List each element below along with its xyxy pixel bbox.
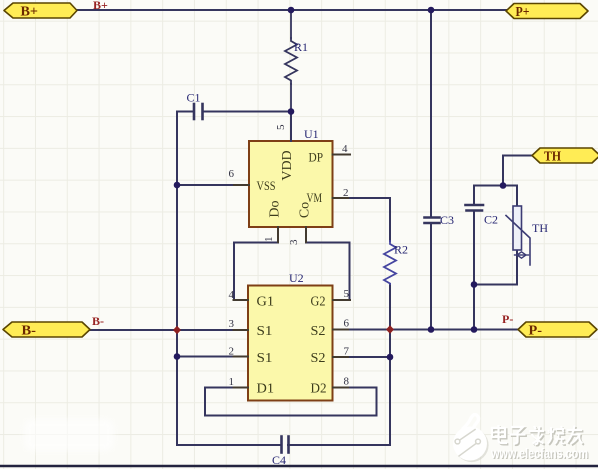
wire Co pin to G2 — [306, 227, 350, 300]
wire C2 bottom to P- net — [473, 212, 475, 330]
pin U2-6 — [333, 329, 348, 331]
resistor R1 — [285, 10, 297, 112]
wire TH port lead — [503, 156, 532, 186]
pin U1-4 — [333, 154, 351, 156]
pin U2-3 — [234, 329, 249, 331]
watermark text shadow — [493, 426, 584, 445]
pin U1-6 — [234, 184, 249, 186]
watermark smudge bottom-left — [24, 419, 114, 451]
node junction red R2/S2 — [386, 325, 394, 333]
watermark logo circle — [453, 415, 489, 463]
pin U2-4 — [234, 299, 249, 301]
wire VSS pin6 net — [177, 184, 249, 186]
node junction C2/TH bottom — [471, 281, 478, 288]
node junction C3 top — [428, 7, 435, 14]
wire C3 bottom lead — [430, 224, 432, 330]
node junction VSS net — [174, 182, 181, 189]
wire left vertical bus x=177 — [176, 112, 178, 446]
wire VM pin2 net to R2 top — [333, 198, 391, 241]
wire C4 left lead — [177, 444, 281, 446]
wire B- to S1 pin3 — [90, 329, 248, 331]
svg-text:www.elecfans.com: www.elecfans.com — [490, 446, 588, 461]
capacitor C3 — [425, 218, 440, 224]
watermark text — [492, 425, 583, 444]
wire TH thermistor bottom — [474, 250, 517, 285]
wire C3 top lead — [430, 10, 432, 216]
pin U1-3 — [305, 227, 307, 242]
pin U2-2 — [234, 356, 249, 358]
node junction S1 pin2 — [174, 353, 181, 360]
wire S2 pin7 to R2 net — [333, 356, 391, 358]
wire S1 pin2 — [177, 356, 248, 358]
wire C2 top stub — [473, 186, 475, 205]
port B- — [3, 322, 90, 339]
op-amp U2 — [248, 286, 333, 401]
pin U2-1 — [234, 387, 249, 389]
pin U1-5 — [290, 112, 292, 141]
pin U1-2 — [333, 197, 349, 199]
wire R2 bottom vertical to C4 — [288, 284, 390, 445]
capacitor C1 — [194, 104, 203, 119]
node junction red B- — [173, 326, 181, 334]
wire bottom sheet edge — [0, 465, 598, 467]
thermistor TH — [506, 206, 530, 265]
capacitor C2 — [466, 205, 484, 211]
node junction R2 bottom pin7 — [387, 354, 394, 361]
port P- — [518, 322, 597, 339]
pin U2-8 — [333, 387, 348, 389]
wire C1 right lead to R1 bottom node — [203, 111, 291, 113]
wire C2/TH top net — [474, 185, 517, 187]
wire Do pin to G1 — [234, 227, 278, 300]
pin U2-5 — [333, 299, 350, 301]
capacitor C4 — [282, 437, 289, 453]
wire C1 left lead — [177, 111, 193, 113]
node junction R1 bottom / C1 / pin5 — [288, 108, 295, 115]
port P+ — [506, 4, 588, 21]
wire top bus B+ to P+ — [77, 9, 506, 11]
wire D1 loop — [205, 388, 377, 416]
port B+ — [4, 3, 77, 20]
port TH — [532, 148, 598, 165]
op-amp U1 — [249, 141, 333, 227]
resistor R2 — [384, 241, 396, 284]
node junction C3 bottom — [428, 326, 435, 333]
node junction R1 top — [288, 7, 295, 14]
node junction C2 bottom P- net — [471, 326, 478, 333]
wire TH thermistor top stub — [516, 186, 518, 207]
pin U1-1 — [277, 227, 279, 242]
wire S2 pin6 to P- — [333, 329, 519, 331]
pin U2-7 — [333, 356, 348, 358]
node junction TH top — [500, 182, 507, 189]
